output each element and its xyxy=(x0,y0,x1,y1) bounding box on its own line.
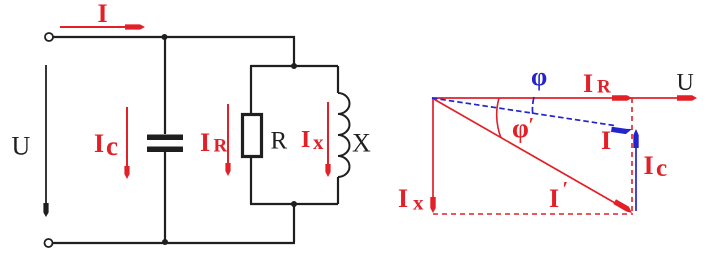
svg-text:′: ′ xyxy=(563,178,569,200)
node junction RX bottom xyxy=(291,201,297,207)
svg-text:U: U xyxy=(677,70,694,96)
wire RX loop top xyxy=(250,65,338,67)
current arrow IX xyxy=(325,102,330,177)
wire resistor branch lower xyxy=(250,157,252,205)
phasor dashed bottom horizontal xyxy=(433,213,633,215)
svg-text:I: I xyxy=(94,129,104,158)
svg-text:φ: φ xyxy=(512,113,529,143)
wire resistor branch upper xyxy=(250,66,252,115)
svg-text:I: I xyxy=(583,69,593,98)
svg-text:I: I xyxy=(98,0,108,28)
svg-text:I: I xyxy=(301,127,310,153)
svg-text:I: I xyxy=(549,184,559,213)
terminal bottom-left xyxy=(45,239,53,247)
phasor U axis line xyxy=(432,97,692,99)
node junction RX top xyxy=(291,63,297,69)
svg-text:I: I xyxy=(398,184,408,213)
current arrow IC xyxy=(124,107,129,179)
svg-text:U: U xyxy=(12,132,31,161)
phasor vector I-prime xyxy=(432,98,632,213)
wire bottom rail xyxy=(53,242,295,244)
angle arc phi-prime red xyxy=(497,98,501,138)
wire capacitor upper xyxy=(164,37,166,134)
svg-text:X: X xyxy=(352,129,371,158)
inductor X coil xyxy=(338,93,350,177)
current arrow IR xyxy=(225,104,230,176)
svg-text:R: R xyxy=(597,77,611,98)
node junction bottom (capacitor tap) xyxy=(162,239,168,245)
node junction top (capacitor tap) xyxy=(162,34,168,40)
svg-text:c: c xyxy=(106,131,118,161)
phasor vector IC blue up xyxy=(633,129,638,211)
svg-text:′: ′ xyxy=(529,114,535,136)
phasor IR arrowhead xyxy=(612,95,632,100)
phasor U arrowhead xyxy=(677,95,697,100)
wire capacitor lower xyxy=(164,152,166,242)
wire RX to bottom rail xyxy=(293,204,295,242)
phasor vector IX xyxy=(430,98,435,213)
svg-text:I: I xyxy=(601,126,611,155)
svg-text:I: I xyxy=(644,151,654,180)
wire top xyxy=(53,37,294,66)
current arrow I xyxy=(60,24,145,29)
svg-text:R: R xyxy=(214,136,228,157)
angle arc phi blue xyxy=(532,97,534,116)
wire RX loop bottom xyxy=(250,203,338,205)
svg-text:x: x xyxy=(313,130,324,154)
resistor R xyxy=(243,115,262,157)
voltage arrow U xyxy=(43,65,48,217)
svg-text:φ: φ xyxy=(531,62,547,91)
wire inductor branch upper xyxy=(337,66,339,93)
wire inductor branch lower xyxy=(337,177,339,204)
svg-text:x: x xyxy=(413,191,424,215)
phasor dashed vertical at IR tip xyxy=(631,98,633,213)
svg-text:c: c xyxy=(656,155,667,182)
terminal top-left xyxy=(45,33,53,41)
capacitor C plates xyxy=(147,135,183,153)
svg-text:R: R xyxy=(271,128,288,155)
svg-text:I: I xyxy=(200,128,210,157)
phasor vector I blue dashed xyxy=(432,98,632,134)
